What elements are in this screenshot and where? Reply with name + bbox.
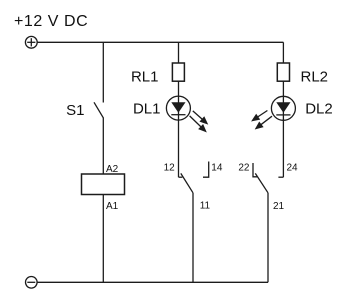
negative supply terminal: [26, 277, 38, 289]
resistor RL1: [131, 63, 184, 85]
svg-text:RL2: RL2: [301, 68, 329, 85]
wire contact common 21 to bottom rail: [268, 193, 285, 282]
svg-text:+12 V DC: +12 V DC: [14, 13, 88, 30]
wire RL2 to DL2: [282, 81, 284, 96]
wire switch to relay coil: [102, 118, 104, 175]
relay contact terminal 14: [203, 162, 223, 178]
svg-text:12: 12: [164, 162, 176, 173]
svg-text:A1: A1: [106, 201, 119, 212]
wire top positive rail: [37, 41, 283, 43]
relay contact moving arm 21-22: [255, 173, 268, 192]
relay contact terminal 24: [278, 162, 298, 177]
svg-text:24: 24: [287, 162, 299, 173]
wire RL1 to DL1: [178, 81, 180, 96]
svg-text:21: 21: [273, 201, 285, 212]
wire from rail to switch S1: [102, 42, 104, 102]
svg-text:RL1: RL1: [131, 68, 159, 85]
wire DL2 to contact terminal 24: [282, 120, 284, 177]
svg-text:DL1: DL1: [133, 100, 161, 117]
relay coil (pins A2, A1): [82, 164, 125, 212]
wire from rail to RL1: [178, 42, 180, 63]
wire bottom negative rail: [37, 281, 268, 283]
svg-text:14: 14: [211, 162, 223, 173]
svg-text:A2: A2: [106, 164, 119, 175]
relay contact terminal 12: [164, 162, 183, 177]
svg-text:DL2: DL2: [305, 101, 333, 118]
wire from rail corner to RL2: [282, 42, 284, 63]
wire contact common 11 to bottom rail: [193, 193, 211, 282]
LED DL2: [253, 96, 333, 128]
wire coil to bottom rail: [102, 195, 104, 283]
svg-text:11: 11: [200, 201, 211, 212]
switch S1: [66, 102, 103, 119]
relay contact terminal 22: [238, 162, 257, 177]
wire DL1 to contact terminal 12: [178, 120, 180, 177]
resistor RL2: [277, 63, 328, 85]
svg-text:22: 22: [238, 162, 250, 173]
relay contact moving arm 11-12: [181, 173, 193, 192]
LED DL1: [133, 96, 207, 131]
positive supply terminal: [25, 36, 37, 48]
svg-text:S1: S1: [66, 102, 84, 119]
